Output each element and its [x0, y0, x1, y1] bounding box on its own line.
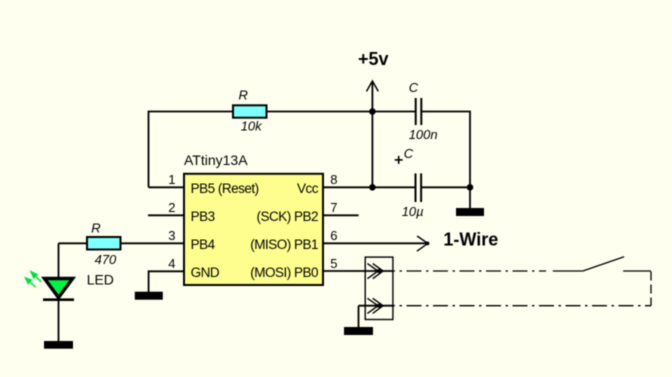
svg-text:(MISO) PB1: (MISO) PB1 — [250, 237, 318, 252]
svg-text:+5v: +5v — [358, 49, 389, 69]
svg-text:1: 1 — [168, 172, 175, 187]
svg-text:GND: GND — [191, 265, 220, 280]
svg-text:1-Wire: 1-Wire — [443, 230, 498, 250]
svg-text:2: 2 — [168, 200, 175, 215]
svg-text:6: 6 — [330, 228, 337, 243]
svg-text:3: 3 — [168, 228, 175, 243]
svg-text:R: R — [91, 220, 100, 235]
svg-text:(MOSI) PB0: (MOSI) PB0 — [250, 265, 318, 280]
svg-text:PB5 (Reset): PB5 (Reset) — [191, 181, 259, 196]
svg-text:100n: 100n — [409, 127, 438, 142]
svg-text:PB4: PB4 — [191, 237, 216, 252]
svg-text:Vcc: Vcc — [297, 181, 319, 196]
svg-text:10µ: 10µ — [402, 204, 424, 219]
svg-text:5: 5 — [330, 256, 337, 271]
svg-text:10k: 10k — [241, 119, 263, 134]
svg-text:8: 8 — [330, 172, 337, 187]
svg-text:C: C — [409, 80, 419, 95]
svg-text:7: 7 — [330, 200, 337, 215]
svg-text:PB3: PB3 — [191, 209, 215, 224]
svg-text:LED: LED — [87, 271, 114, 287]
svg-text:R: R — [239, 88, 248, 103]
svg-text:470: 470 — [95, 252, 117, 267]
svg-text:C: C — [404, 146, 414, 161]
svg-text:(SCK) PB2: (SCK) PB2 — [256, 209, 318, 224]
svg-text:4: 4 — [168, 256, 175, 271]
svg-text:ATtiny13A: ATtiny13A — [184, 152, 248, 168]
